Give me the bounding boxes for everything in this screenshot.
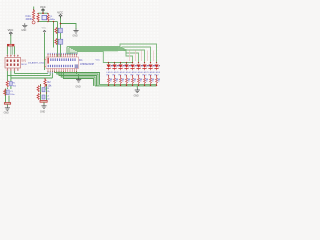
svg-text:GND: GND [21,30,26,32]
svg-text:SV1: SV1 [21,60,26,63]
svg-text:4MHz: 4MHz [50,19,55,21]
svg-text:GND: GND [4,113,9,115]
svg-text:DS-ASMT_C914: DS-ASMT_C914 [28,62,45,65]
svg-text:AT90S2313P: AT90S2313P [80,63,94,66]
svg-text:VCC: VCC [40,5,46,9]
svg-text:VCC: VCC [57,11,63,15]
svg-text:VCC: VCC [96,59,101,61]
svg-text:GND: GND [134,96,139,98]
svg-text:VCC: VCC [42,28,47,30]
svg-text:GND: GND [40,112,45,114]
svg-text:GND: GND [76,86,81,88]
svg-text:LED9: LED9 [155,72,161,74]
svg-text:GND: GND [73,36,78,38]
svg-text:VCC: VCC [8,28,14,32]
svg-text:ML10: ML10 [21,64,27,66]
svg-text:IC1: IC1 [79,59,83,62]
svg-text:4093N: 4093N [26,19,33,21]
svg-text:IC2A: IC2A [26,15,32,18]
